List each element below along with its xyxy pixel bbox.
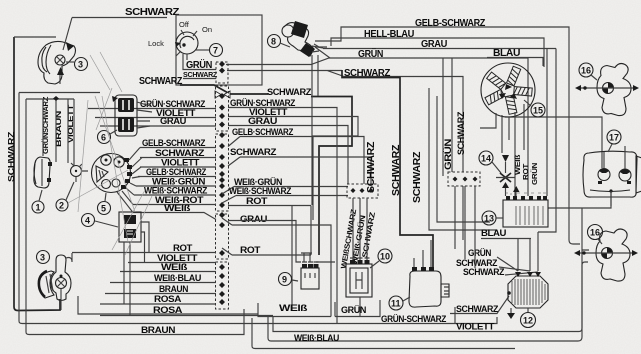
wire gruen-schwarz right <box>228 108 337 324</box>
callout 3 bottom <box>37 251 50 264</box>
connector bowtie junction <box>215 91 230 98</box>
horn relay U11 <box>409 240 449 307</box>
svg-text:SCHWARZ: SCHWARZ <box>183 70 218 79</box>
svg-text:3: 3 <box>40 253 45 263</box>
svg-text:SCHWARZ: SCHWARZ <box>267 87 312 98</box>
wire left riser pair <box>26 99 74 166</box>
wire grau right2 <box>222 218 331 317</box>
svg-text:14: 14 <box>481 154 491 164</box>
wire bottom gruen-schwarz run <box>22 307 497 324</box>
dimmer switch U6 <box>112 95 152 136</box>
connector pins central <box>219 61 225 305</box>
wire weiss schwarz right <box>222 196 348 204</box>
svg-text:11: 11 <box>391 299 401 309</box>
wire weiss gruen left <box>136 185 216 187</box>
callout 15 <box>524 100 545 117</box>
headlamp U5 <box>92 154 133 193</box>
callout 16 bottom <box>588 225 603 245</box>
wire violett bottom-left <box>128 262 216 264</box>
svg-text:BRAUN: BRAUN <box>54 111 63 147</box>
callout 13 <box>482 211 503 225</box>
wire mid risers <box>429 58 497 230</box>
wire grau top <box>323 49 556 197</box>
svg-text:13: 13 <box>484 214 494 224</box>
wire blau rectifier <box>481 239 531 272</box>
svg-text:SCHWARZ: SCHWARZ <box>7 131 16 182</box>
svg-text:SCHWARZ: SCHWARZ <box>230 147 277 158</box>
bulb U2 <box>71 163 89 182</box>
wire gelb-schwarz top <box>315 27 602 244</box>
wire weiss u9 <box>78 296 331 317</box>
wire left border 2 <box>19 93 100 324</box>
svg-text:9: 9 <box>282 275 287 285</box>
callout 7 <box>196 44 223 57</box>
callout 17 <box>607 130 621 152</box>
svg-text:GRÜN: GRÜN <box>341 305 367 316</box>
svg-text:2: 2 <box>59 201 64 211</box>
svg-text:Off: Off <box>179 20 190 29</box>
tail light U17 <box>583 146 641 206</box>
callout 5 <box>98 193 111 215</box>
turn signal front-left U3top <box>38 18 76 85</box>
wire schwarz right thick <box>311 97 352 256</box>
svg-text:GRÜN: GRÜN <box>530 163 539 185</box>
wire weiss blau bottom-left <box>110 282 216 284</box>
wire schwarz top left <box>72 17 167 19</box>
wire gelb schwarz right <box>228 137 364 185</box>
svg-text:SCHWARZ: SCHWARZ <box>411 151 423 203</box>
svg-text:12: 12 <box>523 316 533 326</box>
svg-text:8: 8 <box>271 37 276 47</box>
wire rot bottom-left <box>72 252 216 254</box>
callout 1 <box>32 190 44 213</box>
svg-text:10: 10 <box>380 252 390 262</box>
svg-text:SCHWARZ: SCHWARZ <box>390 144 402 196</box>
connector right pins <box>453 177 478 182</box>
wire rosa bottom-left <box>100 303 216 305</box>
svg-text:GRÜN-SCHWARZ: GRÜN-SCHWARZ <box>381 314 447 325</box>
svg-text:16: 16 <box>581 66 591 76</box>
wire weiss bottom-left <box>120 271 216 273</box>
wire weiss left <box>133 213 216 220</box>
svg-text:5: 5 <box>101 204 106 214</box>
regulator U12 <box>507 272 548 308</box>
svg-text:ROT: ROT <box>521 163 530 180</box>
wire violett left2 <box>140 166 216 168</box>
wire gelb schwarz left2 <box>138 176 216 178</box>
flywheel magneto U15 <box>481 63 535 117</box>
wire schwarz thick left <box>180 85 268 94</box>
turn signal right-bottom U16b <box>574 229 638 281</box>
wire blau flywheel <box>487 58 543 67</box>
svg-text:SCHWARZ: SCHWARZ <box>456 111 467 155</box>
svg-text:SCHWARZ: SCHWARZ <box>463 267 505 278</box>
callout 9 <box>279 273 299 286</box>
wire left border 3 <box>26 99 29 335</box>
wire braun bottom-left <box>105 293 216 295</box>
wire rosa bottom-left2 <box>100 315 273 317</box>
ignition switch box U7 <box>176 15 262 85</box>
svg-text:On: On <box>202 25 212 34</box>
svg-text:1: 1 <box>36 203 41 213</box>
wire gruen-schwarz left <box>88 108 216 110</box>
lamp U1 <box>34 157 52 188</box>
wire regulator top leads <box>455 186 538 275</box>
brake switch lever U8 <box>282 21 330 58</box>
connector strip central dashed <box>216 62 229 309</box>
wire violett bottom run <box>273 192 611 332</box>
wire headlamp fan <box>117 148 142 213</box>
wire rot right3 <box>222 248 311 255</box>
callout 14 <box>479 151 501 173</box>
junction box U9 <box>228 221 335 290</box>
wire gelb-schwarz left <box>140 147 216 149</box>
callout 8 <box>268 35 291 48</box>
wire flywheel down leads <box>480 104 524 196</box>
svg-text:WEIß: WEIß <box>279 303 308 314</box>
wire hell-blau top <box>312 38 556 232</box>
svg-text:GELB-SCHWARZ: GELB-SCHWARZ <box>415 18 485 29</box>
svg-text:15: 15 <box>533 106 543 116</box>
svg-text:ROT: ROT <box>240 245 261 256</box>
svg-text:GRAU: GRAU <box>160 116 187 127</box>
svg-text:ROSA: ROSA <box>154 294 182 305</box>
callout 3 top <box>66 58 88 71</box>
svg-text:16: 16 <box>590 228 600 238</box>
wire rot right <box>228 206 311 311</box>
svg-text:BRAUN: BRAUN <box>141 325 176 336</box>
svg-text:BLAU: BLAU <box>481 228 507 239</box>
connector right dashed <box>448 172 480 186</box>
callout 12 <box>521 308 536 328</box>
wire weiss gruen right <box>222 187 348 195</box>
diode U14 <box>496 155 520 196</box>
rectifier U13 <box>503 193 548 227</box>
wire bottom weiss-blau run <box>268 262 588 341</box>
wire violett right <box>228 117 358 221</box>
wire bottom long run 2 <box>252 318 515 349</box>
turn signal rear-left U3bottom <box>39 253 72 310</box>
svg-text:GRÜN: GRÜN <box>358 47 383 60</box>
callout 10 <box>370 249 392 268</box>
wire left border outer <box>14 37 60 311</box>
svg-text:GRAU: GRAU <box>240 214 268 225</box>
ground regulator <box>510 308 512 313</box>
flasher relay U4 <box>119 212 149 316</box>
wire braun bottom <box>29 309 244 335</box>
wire gruen ignition <box>183 54 216 70</box>
svg-text:7: 7 <box>213 46 218 56</box>
wire violett left <box>95 117 216 119</box>
svg-text:HELL-BLAU: HELL-BLAU <box>364 29 414 40</box>
svg-text:4: 4 <box>85 216 90 226</box>
wire schwarz regulator left <box>450 296 509 314</box>
ignition coil U10 <box>346 258 372 297</box>
svg-text:VIOLETT: VIOLETT <box>456 322 495 333</box>
svg-text:SCHWARZ: SCHWARZ <box>365 141 377 193</box>
callout 11 <box>389 296 410 310</box>
callout 6 <box>98 130 118 144</box>
wire weiss-rot left <box>133 204 216 206</box>
svg-text:3: 3 <box>78 60 83 70</box>
wire schwarz left2 <box>140 157 216 159</box>
wire grau left <box>100 125 216 127</box>
wire schwarz small <box>183 78 216 80</box>
turn signal right-top U16a <box>575 64 639 116</box>
callout 2 <box>56 182 74 211</box>
wire coil leads <box>353 198 367 260</box>
wire schwarz right2 <box>228 157 371 184</box>
svg-text:SCHWARZ: SCHWARZ <box>139 76 182 87</box>
svg-text:17: 17 <box>609 133 619 143</box>
svg-text:6: 6 <box>101 133 106 143</box>
svg-text:SCHWARZ: SCHWARZ <box>125 7 179 18</box>
ignition switch rotor <box>175 30 198 56</box>
svg-text:WEIß·BLAU: WEIß·BLAU <box>294 333 339 344</box>
wire gruen coil <box>335 297 380 317</box>
svg-text:Lock: Lock <box>148 39 164 48</box>
svg-text:BLAU: BLAU <box>493 48 520 59</box>
svg-text:GRÜNSCHWARZ: GRÜNSCHWARZ <box>41 96 50 154</box>
callout 16 top <box>579 63 597 80</box>
connector coil dashed <box>347 184 378 198</box>
svg-text:GRAU: GRAU <box>421 39 447 50</box>
wire weiss schwarz left <box>134 194 216 196</box>
connector coil pins <box>351 188 374 193</box>
leader construction lines <box>68 52 152 255</box>
wire gruen top <box>226 58 528 196</box>
wire grau right <box>228 126 348 185</box>
wire schwarz top 2 <box>227 71 463 241</box>
callout 4 <box>82 214 119 228</box>
